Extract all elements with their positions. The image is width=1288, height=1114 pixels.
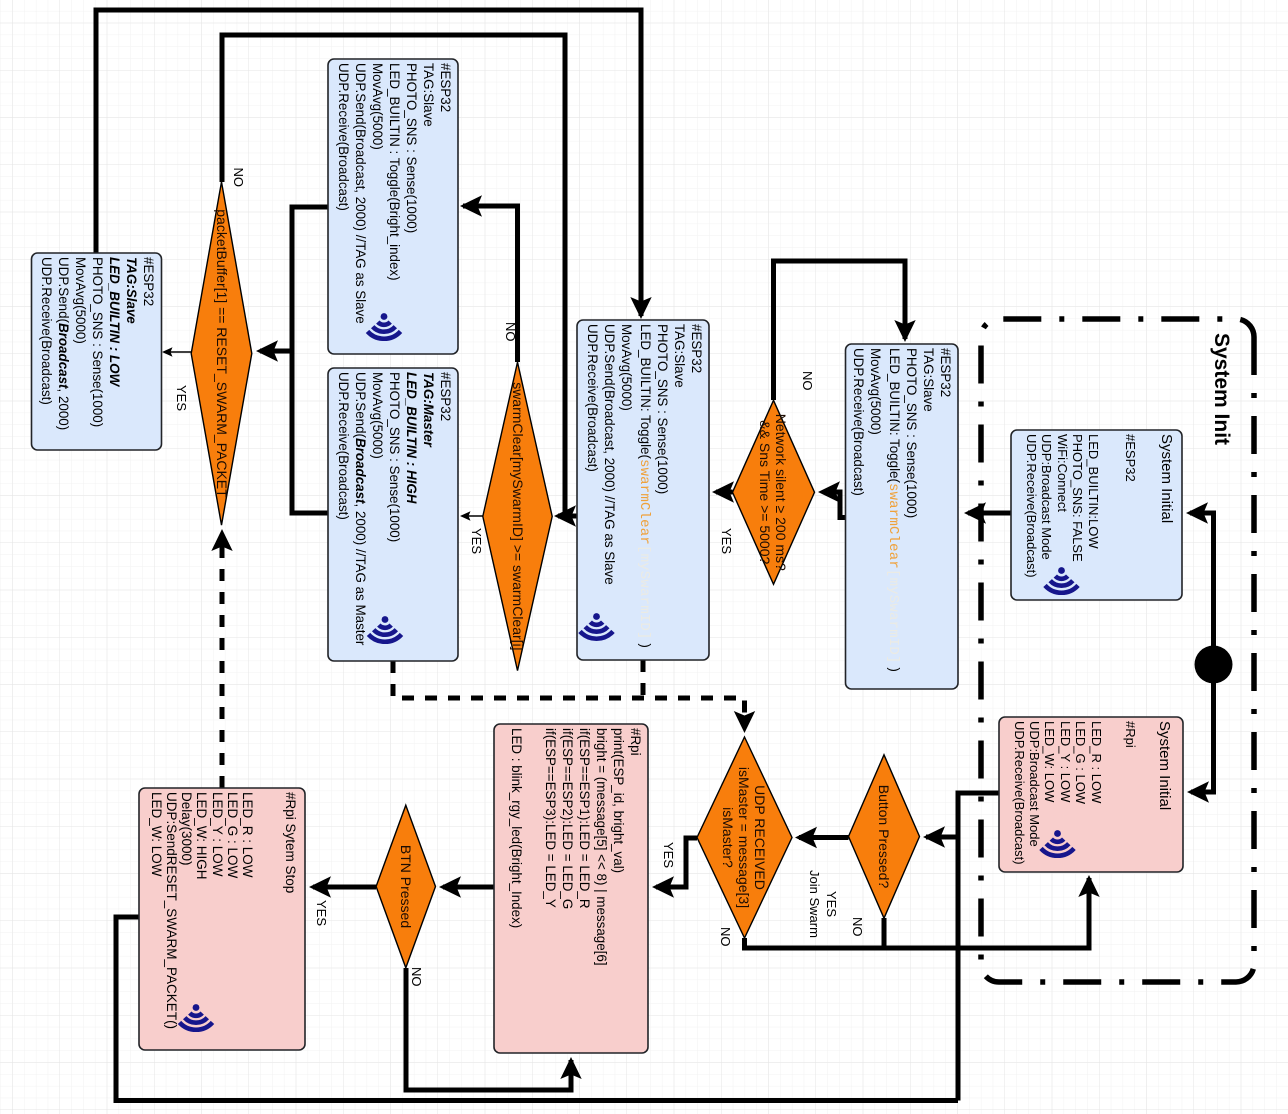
decision D2 swarmClear text <box>483 362 552 670</box>
decision D6 BTN pressed text <box>376 805 435 968</box>
label NO (D4) <box>850 917 864 937</box>
box H #Rpi print shape <box>494 724 648 1053</box>
label YES Join Swarm (D4) <box>806 844 840 964</box>
wire D3 NO -> E <box>774 261 906 400</box>
decision D1 packetBuffer shape <box>191 182 252 525</box>
wire ->D4 <box>926 835 958 840</box>
wifi icon box I <box>193 1004 200 1011</box>
label NO (D1) <box>232 168 246 188</box>
box B #ESP32 TAG:Slave reset shape <box>32 253 162 450</box>
dashed C/D -> D5 <box>393 661 745 728</box>
wire start->F <box>1190 513 1214 650</box>
wire B->D <box>96 10 641 316</box>
box E #ESP32 TAG:Slave receive shape <box>846 344 959 689</box>
wire D2 YES -> C <box>462 515 483 517</box>
wire C->D1 <box>292 351 328 513</box>
wire G->down <box>958 793 999 1101</box>
label YES (D1) <box>174 385 188 411</box>
box C #ESP32 TAG:Master text <box>331 368 458 651</box>
wire D2 NO -> A <box>463 206 518 362</box>
wifi icon box D <box>593 613 600 620</box>
box D #ESP32 TAG:Slave swarmClear text <box>580 320 709 650</box>
decision D1 packetBuffer text <box>191 182 252 525</box>
label YES (D5) <box>661 842 675 868</box>
wire D6 NO -> H <box>406 968 571 1090</box>
label NO (D2) <box>503 322 517 342</box>
wifi icon box C <box>382 616 389 623</box>
box B #ESP32 TAG:Slave reset text <box>35 253 162 440</box>
wire I loop <box>116 917 958 1101</box>
box G System Initial Rpi shape <box>999 717 1183 872</box>
box I #Rpi Sytem Stop shape <box>139 788 305 1050</box>
wire start->G <box>1191 680 1214 793</box>
box A #ESP32 TAG:Slave shape <box>328 59 458 354</box>
dashed D stub <box>641 660 646 698</box>
decision D6 BTN pressed shape <box>376 805 435 968</box>
label NO (D6) <box>409 967 423 987</box>
start node <box>1195 646 1233 684</box>
wire D1 YES -> B <box>164 351 191 353</box>
wire D5 NO -> G <box>745 878 1090 948</box>
label YES (D2) <box>469 528 483 554</box>
decision D2 swarmClear shape <box>483 362 552 670</box>
wire F->E <box>968 511 1011 516</box>
wifi icon box G <box>1054 830 1061 837</box>
decision D5 UDP received text <box>697 737 792 938</box>
box G System Initial Rpi text <box>1007 717 1183 862</box>
wire D1 NO -> D2 <box>222 35 565 516</box>
dashed I -> D1 <box>220 534 225 788</box>
box H #Rpi print text <box>504 724 648 1043</box>
box I #Rpi Sytem Stop text <box>144 788 305 1040</box>
wire E->D3 <box>823 492 846 518</box>
wire H->D6 <box>443 885 494 890</box>
wire D4 YES -> D5 <box>799 835 849 840</box>
wire A->D1 <box>260 207 328 351</box>
decision D5 UDP received shape <box>697 737 792 938</box>
wire D5 YES -> H <box>656 838 697 887</box>
wifi icon box F <box>1058 567 1065 574</box>
wire D->D2 <box>560 514 577 519</box>
decision D3 network silent shape <box>733 400 815 584</box>
wifi icon box A <box>381 313 388 320</box>
label YES (D6) <box>314 900 328 926</box>
label NO (D3) <box>800 371 814 391</box>
box F System Initial ESP32 text <box>1020 430 1182 590</box>
box D #ESP32 TAG:Slave swarmClear shape <box>577 320 709 660</box>
decision D3 network silent text <box>733 400 815 584</box>
box A #ESP32 TAG:Slave text <box>331 59 458 344</box>
System Init title <box>1209 333 1233 445</box>
decision D4 button pressed text <box>849 755 920 918</box>
label NO (D5) <box>718 927 732 947</box>
wire D3 YES -> D <box>716 490 733 495</box>
wire D6 YES -> I <box>313 885 376 890</box>
box C #ESP32 TAG:Master shape <box>328 368 458 661</box>
label YES (D3) <box>719 528 733 554</box>
decision D4 button pressed shape <box>849 755 920 918</box>
box E #ESP32 TAG:Slave receive text <box>846 344 958 679</box>
System Init boundary <box>981 319 1254 982</box>
wire D4 NO <box>882 918 887 948</box>
box F System Initial ESP32 shape <box>1011 430 1182 600</box>
